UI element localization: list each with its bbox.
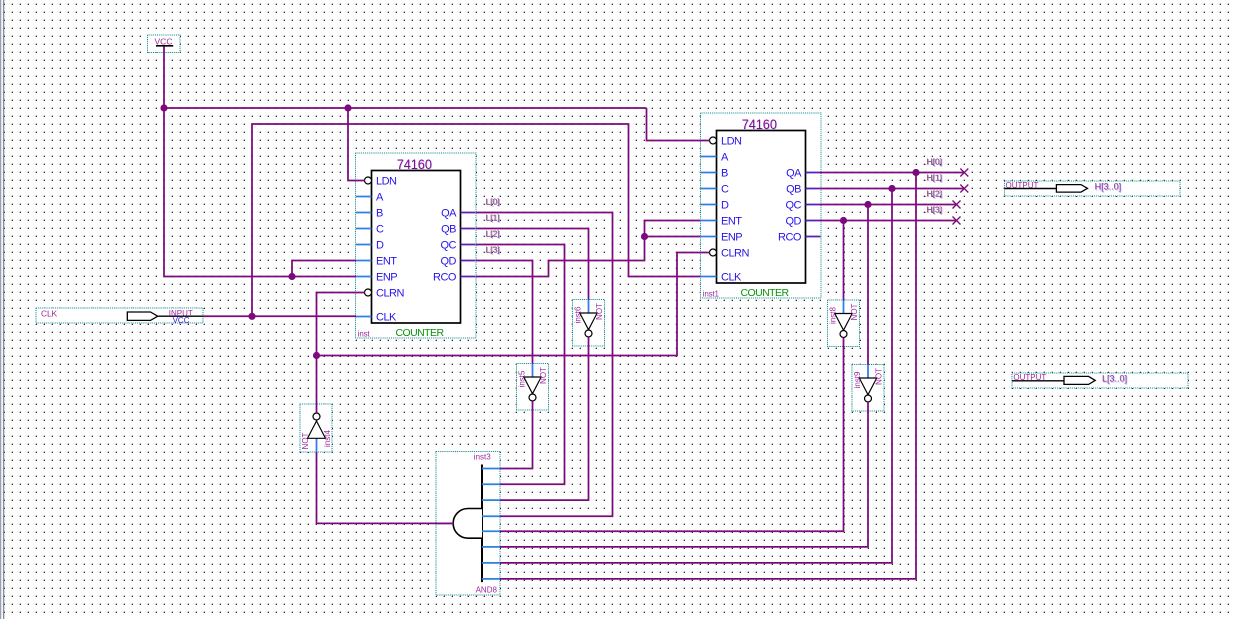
svg-text:VCC: VCC [155, 36, 173, 46]
window left edge strip [0, 0, 4, 619]
svg-text:inst3: inst3 [474, 453, 491, 462]
wire inverter inst8 output to AND8 input 5 [500, 338, 844, 532]
counter inst body [372, 171, 461, 324]
output port L[3..0] arrow symbol [1064, 376, 1095, 384]
inverter inst4 input stub [316, 438, 318, 452]
svg-text:74160: 74160 [397, 157, 433, 172]
svg-text:CLRN: CLRN [721, 248, 750, 260]
output port H[3..0] arrow symbol [1056, 185, 1087, 193]
svg-text:QC: QC [786, 200, 802, 212]
inverter inst5 input stub [532, 364, 534, 378]
svg-text:inst1: inst1 [703, 290, 720, 299]
counter inst unconnected pin stubs A B C D [356, 196, 372, 198]
wire L[0] net: QA of inst down to AND8 input 4 [476, 213, 613, 517]
output port H[3..0] selection box [1005, 181, 1181, 196]
junction ENP / ENT stub of inst [288, 273, 295, 280]
wire H[1] net: branch down to AND8 input 7 [500, 189, 892, 563]
wire L[2] net: QC of inst down to AND8 input 2 [476, 245, 565, 485]
junction H[2] branch [864, 201, 871, 208]
svg-text:.L[0]: .L[0] [483, 196, 500, 206]
svg-text:L[3..0]: L[3..0] [1102, 374, 1127, 384]
svg-text:.H[1]: .H[1] [924, 172, 942, 182]
svg-text:.H[3]: .H[3] [924, 204, 942, 214]
wire L[1] net: QB of inst down to inverter inst6 [476, 229, 589, 300]
and-gate inst3 input bar [481, 465, 483, 583]
wire inverter inst9 output to AND8 input 6 [500, 402, 868, 547]
svg-text:C: C [376, 224, 384, 236]
counter inst1 unconnected pin stubs A B C D [701, 156, 717, 158]
svg-text:QB: QB [786, 184, 801, 196]
svg-text:A: A [376, 192, 384, 204]
and-gate inst3 AND8 selection box [436, 452, 500, 596]
counter inst1 output pin stubs QA QB QC QD RCO [806, 172, 821, 174]
wire inverter inst6 output to AND8 input 3 [500, 337, 589, 500]
input port CLK symbol line [151, 315, 204, 317]
svg-text:NOT: NOT [850, 303, 859, 320]
wire CLRN net: branch across to CLRN of inst1 [317, 253, 710, 356]
svg-text:LDN: LDN [721, 136, 742, 148]
wire VCC net: ENT stub of inst [292, 261, 356, 277]
svg-text:QB: QB [441, 224, 456, 236]
inverter inst9 (NOT, pointing down) selection box [852, 365, 884, 412]
svg-text:LDN: LDN [376, 176, 397, 188]
counter inst pin stubs ENT ENP CLK [356, 260, 372, 262]
inverter inst9 triangle [859, 378, 876, 395]
wire RCO of inst to ENT of inst1 [476, 221, 700, 277]
svg-text:CLK: CLK [721, 272, 742, 284]
inverter inst4 triangle [308, 421, 326, 438]
svg-text:CLK: CLK [41, 308, 57, 318]
inverter inst8 (NOT, pointing down) selection box [828, 300, 860, 347]
power symbol VCC selection box [148, 35, 181, 53]
svg-text:ENT: ENT [376, 256, 397, 268]
svg-text:CLRN: CLRN [376, 288, 405, 300]
svg-text:CLK: CLK [376, 312, 397, 324]
inverter inst6 triangle [580, 313, 597, 330]
counter inst output pin stubs QA QB QC QD RCO [461, 212, 476, 214]
svg-text:ENP: ENP [721, 232, 742, 244]
wire H[3] net: QD of inst1 [820, 220, 957, 222]
wire H[1] net: QB of inst1 [820, 188, 964, 190]
wire H[3] net: branch down to inverter inst8 [843, 221, 845, 301]
svg-text:ENT: ENT [721, 216, 742, 228]
inverter inst4 (NOT, pointing up) selection box [300, 404, 332, 452]
wire VCC net: top horizontal rail [164, 107, 647, 109]
counter inst1 body [717, 131, 806, 284]
junction VCC rail / VCC drop [160, 104, 167, 111]
inverter inst4 output bubble [313, 413, 320, 420]
and-gate inst3 output stub [437, 522, 454, 524]
junction VCC rail / LDN branch [344, 104, 351, 111]
svg-text:QD: QD [441, 256, 457, 268]
counter inst1 74160 selection box [701, 113, 822, 298]
wire H[0] net: branch down to AND8 input 8 [500, 173, 916, 579]
svg-text:D: D [376, 240, 384, 252]
wire L[3] net: QD of inst down to inverter inst5 [476, 261, 533, 364]
wire VCC net: branch to LDN of inst [348, 108, 365, 181]
svg-text:QD: QD [786, 216, 802, 228]
svg-text:A: A [721, 152, 729, 164]
junction H[3] branch [840, 217, 847, 224]
wire H[0] net: QA of inst1 [820, 172, 964, 174]
inverter inst8 output bubble [840, 331, 847, 338]
wire CLK net: riser and top run to inst1 [252, 124, 700, 316]
svg-text:QC: QC [441, 240, 457, 252]
dangling end marker H[1] [960, 185, 968, 193]
inverter inst9 input stub [867, 365, 869, 379]
counter inst1 pin stubs ENT ENP CLK [701, 220, 717, 222]
svg-text:inst5: inst5 [518, 370, 527, 387]
counter inst 74160 selection box [356, 153, 477, 338]
wire VCC net: drop from VCC symbol to ENP of inst [164, 47, 356, 277]
inverter inst6 input stub [588, 300, 590, 314]
junction CLRN riser / cross branch [313, 352, 320, 359]
svg-text:QA: QA [441, 208, 457, 220]
svg-text:inst8: inst8 [829, 307, 838, 324]
output port H[3..0] symbol line [1005, 188, 1057, 190]
input port CLK arrow symbol [127, 312, 157, 320]
junction H[0] branch [912, 169, 919, 176]
inverter inst5 output bubble [529, 394, 536, 401]
svg-text:ENP: ENP [376, 272, 397, 284]
and-gate inst3 input pin stubs 1-8 [482, 468, 500, 470]
junction RCO riser / ENP branch [641, 233, 648, 240]
svg-text:AND8: AND8 [476, 586, 498, 595]
svg-text:COUNTER: COUNTER [395, 327, 444, 339]
svg-text:C: C [721, 184, 729, 196]
inverter inst8 triangle [835, 314, 852, 331]
wire CLRN net: inverter inst4 output up to CLRN of inst [317, 293, 365, 413]
counter inst1 CLRN inversion bubble [710, 249, 717, 256]
junction CLK wire / riser [248, 313, 255, 320]
svg-text:VCC: VCC [173, 316, 190, 325]
svg-text:74160: 74160 [742, 117, 778, 132]
wire H[2] net: branch down to inverter inst9 [867, 205, 869, 365]
svg-text:.H[2]: .H[2] [924, 188, 942, 198]
inverter inst6 output bubble [585, 330, 592, 337]
wire H[2] net: QC of inst1 [820, 204, 957, 206]
counter inst1 LDN inversion bubble [710, 137, 717, 144]
wire VCC net: branch to LDN of inst1 [647, 108, 710, 141]
inverter inst9 output bubble [865, 395, 872, 402]
svg-text:RCO: RCO [433, 272, 457, 284]
inverter inst5 triangle [524, 377, 541, 394]
inverter inst5 (NOT, pointing down) selection box [517, 364, 549, 411]
wire inverter inst5 output to AND8 input 1 [500, 401, 533, 468]
svg-text:B: B [721, 168, 728, 180]
wire CLK net: from input port to CLK of inst [203, 315, 356, 317]
svg-text:NOT: NOT [595, 303, 604, 320]
dangling end marker H[3] [953, 217, 961, 225]
dangling end marker H[0] [960, 169, 968, 177]
svg-text:NOT: NOT [539, 367, 548, 384]
svg-text:NOT: NOT [875, 368, 884, 385]
and-gate inst3 D-shape body (mirrored, output left) [453, 509, 482, 539]
power symbol VCC bar [156, 45, 173, 47]
svg-text:B: B [376, 208, 383, 220]
svg-text:NOT: NOT [301, 432, 310, 449]
output port L[3..0] selection box [1012, 373, 1188, 388]
counter inst LDN inversion bubble [365, 177, 372, 184]
svg-text:inst4: inst4 [323, 430, 332, 447]
dangling end marker H[2] [953, 201, 961, 209]
junction H[1] branch [888, 185, 895, 192]
inverter inst6 (NOT, pointing down) selection box [573, 300, 605, 347]
svg-text:D: D [721, 200, 729, 212]
wire branch to ENP of inst1 [645, 236, 701, 238]
counter inst CLRN inversion bubble [365, 289, 372, 296]
svg-text:RCO: RCO [778, 232, 802, 244]
inverter inst8 input stub [843, 300, 845, 314]
svg-text:.H[0]: .H[0] [924, 156, 942, 166]
input port CLK selection box [36, 308, 203, 323]
wire AND8 output to inverter inst4 input [317, 452, 454, 523]
svg-text:.L[2]: .L[2] [483, 228, 500, 238]
output port L[3..0] symbol line [1012, 380, 1064, 382]
svg-text:QA: QA [786, 168, 802, 180]
svg-text:.L[1]: .L[1] [483, 212, 500, 222]
svg-text:.L[3]: .L[3] [483, 244, 500, 254]
svg-text:H[3..0]: H[3..0] [1095, 182, 1122, 192]
svg-text:inst9: inst9 [853, 371, 862, 388]
svg-text:inst6: inst6 [574, 306, 583, 323]
svg-text:COUNTER: COUNTER [740, 287, 789, 299]
svg-text:inst: inst [358, 330, 371, 339]
